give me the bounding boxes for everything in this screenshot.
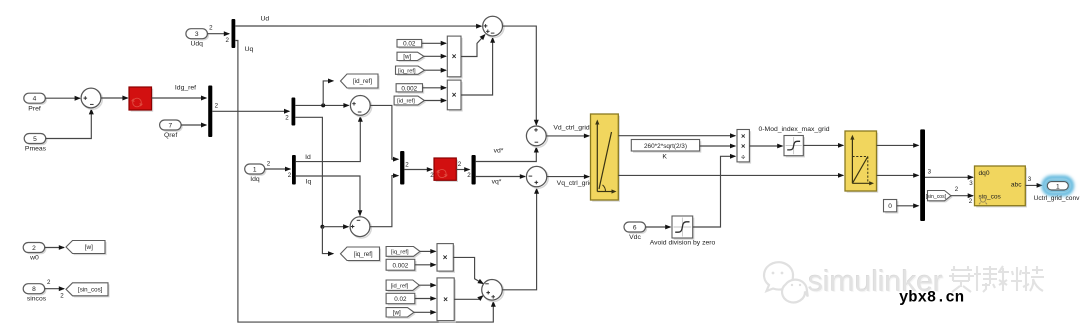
- svg-text:0: 0: [888, 203, 892, 210]
- svg-text:sincos: sincos: [27, 296, 47, 303]
- wire branch to goto id_ref: [323, 81, 333, 106]
- from tag [iq_ref] top: [397, 68, 426, 76]
- svg-text:1: 1: [1056, 184, 1060, 191]
- wire w0 to goto: [45, 247, 64, 249]
- inport 4 Pref: [25, 95, 47, 105]
- svg-text:Qref: Qref: [164, 132, 177, 139]
- wire w to product1: [424, 55, 446, 57]
- sum Ud feedforward: [484, 18, 504, 38]
- watermark chinese glyphs: [949, 266, 1044, 292]
- saturation avoid division by zero: [674, 218, 695, 240]
- svg-text:×: ×: [443, 253, 448, 262]
- from tag [id_ref] bottom: [388, 282, 421, 292]
- wire product4 to sum Uq: [454, 296, 483, 300]
- wire branch to goto iq_ref: [322, 227, 333, 254]
- sum Vq: [528, 168, 548, 188]
- inport 8 sincos: [25, 285, 47, 295]
- goto tag [sin_cos]: [68, 284, 110, 297]
- svg-text:×: ×: [452, 52, 457, 61]
- svg-text:[iq_ref]: [iq_ref]: [354, 251, 373, 258]
- svg-text:2: 2: [60, 293, 64, 300]
- wire mux to dq0 block: [925, 176, 973, 178]
- wire saturation to product5: [693, 156, 736, 227]
- wire product1 to sum Ud: [461, 35, 485, 57]
- wire to product4 b: [415, 298, 436, 300]
- dq to polar block (yellow): [592, 116, 620, 202]
- wire 0.002 to product2: [423, 87, 446, 89]
- wire K to product5: [700, 145, 736, 147]
- wire Pref to sum: [45, 97, 80, 99]
- wire vq*: [476, 176, 525, 178]
- goto tag [iq_ref]: [342, 249, 381, 263]
- from tag [iq_ref] bottom: [388, 248, 422, 258]
- svg-text:[sin_cos]: [sin_cos]: [926, 194, 947, 200]
- svg-text:2: 2: [209, 24, 213, 31]
- wire to product3: [420, 250, 436, 252]
- wire mux to demux ref: [212, 110, 289, 112]
- wire Idq to demux: [265, 168, 291, 170]
- wire sat dyn out1 to mux: [877, 144, 919, 146]
- svg-text:[id_ref]: [id_ref]: [353, 78, 372, 85]
- wire Pmeas to sum: [46, 109, 92, 138]
- wire to saturation dynamic: [803, 144, 843, 146]
- wire vd*: [476, 147, 537, 161]
- wire product3 to sum Uq: [453, 257, 483, 283]
- svg-text:Pref: Pref: [28, 105, 41, 112]
- svg-text:2: 2: [215, 103, 219, 110]
- constant 0.02 bottom: [388, 295, 417, 305]
- svg-text:[iq_ref]: [iq_ref]: [391, 250, 409, 256]
- wire abc out to outport: [1025, 184, 1042, 186]
- svg-text:3: 3: [195, 31, 199, 38]
- wire iq_ref down: [295, 117, 322, 226]
- inport 6 Vdc: [626, 224, 648, 234]
- outport 1 Uctrl_grid_conv (highlighted): [1044, 178, 1073, 195]
- junction iq_ref: [320, 225, 324, 229]
- svg-text:[id_ref]: [id_ref]: [397, 99, 415, 105]
- wire id_ref to product2: [424, 100, 446, 102]
- wire 0.02 to product1: [422, 42, 446, 44]
- svg-text:[iq_ref]: [iq_ref]: [398, 68, 416, 74]
- svg-text:6: 6: [633, 224, 637, 231]
- wire to product3 b: [415, 264, 436, 266]
- svg-text:Iq: Iq: [306, 178, 312, 185]
- constant 0: [885, 201, 898, 213]
- wire 0 to mux: [897, 205, 919, 207]
- constant 0.002 top: [398, 85, 424, 93]
- demux Idq: [292, 155, 296, 185]
- goto tag [id_ref]: [342, 76, 380, 90]
- wire iq_ref to product1: [425, 69, 446, 71]
- svg-text:×: ×: [452, 91, 457, 100]
- svg-text:[w]: [w]: [393, 310, 401, 317]
- svg-text:ybx8.cn: ybx8.cn: [899, 289, 964, 307]
- svg-text:2: 2: [405, 162, 409, 169]
- svg-text:Vd_ctrl_grid: Vd_ctrl_grid: [553, 124, 589, 131]
- svg-text:×: ×: [443, 295, 448, 304]
- saturation 0-Mod_index_max_grid: [786, 137, 805, 157]
- svg-text:4: 4: [33, 96, 37, 103]
- product5 divide x x /: [739, 131, 751, 163]
- mux ref currents: [208, 86, 212, 138]
- svg-text:0.002: 0.002: [393, 263, 409, 270]
- svg-text:Udq: Udq: [190, 41, 203, 48]
- svg-text:2: 2: [285, 115, 289, 122]
- sum Uq feedforward: [483, 281, 504, 302]
- constant 0.002 bottom: [388, 261, 417, 272]
- from tag [sin_cos]: [929, 192, 953, 202]
- wire Vd_ctrl_grid: [546, 135, 589, 137]
- from tag [w] top: [399, 54, 426, 62]
- svg-text:Idq: Idq: [250, 176, 260, 183]
- wire product2 to sum Ud: [461, 38, 493, 95]
- mux current errors: [400, 151, 404, 185]
- svg-text:Ud: Ud: [260, 16, 269, 23]
- wire Udq to demux: [208, 33, 230, 35]
- wire sum1 to mux err: [370, 105, 398, 159]
- svg-text:0.002: 0.002: [401, 85, 417, 92]
- sum Vd: [528, 127, 548, 147]
- product3 iq_ref*0.002: [439, 245, 455, 272]
- svg-text:7: 7: [168, 122, 172, 129]
- dq0 to abc transform block (yellow): [976, 168, 1027, 208]
- svg-text:2: 2: [225, 37, 229, 44]
- svg-text:abc: abc: [1011, 182, 1022, 189]
- svg-text:0.02: 0.02: [394, 296, 407, 303]
- svg-text:[w]: [w]: [85, 244, 93, 251]
- svg-text:Vdc: Vdc: [629, 234, 641, 241]
- svg-text:2: 2: [47, 279, 51, 286]
- inport 7 Qref: [161, 122, 183, 132]
- inport 2 w0: [25, 244, 47, 254]
- svg-text:1: 1: [253, 166, 257, 173]
- product4 id_ref*0.02*w: [439, 280, 456, 323]
- product1 w*L*iq_ref: [449, 38, 463, 79]
- svg-text:Uq: Uq: [245, 46, 254, 53]
- sum1 id error: [352, 97, 372, 117]
- wire to product4 a: [419, 284, 435, 286]
- wire id_ref to sum1: [295, 104, 348, 106]
- sum2 iq error: [352, 218, 372, 238]
- svg-text:0-Mod_index_max_grid: 0-Mod_index_max_grid: [758, 126, 829, 133]
- svg-text:8: 8: [32, 286, 36, 293]
- svg-text:0.02: 0.02: [403, 41, 416, 48]
- wire Uq: [235, 41, 493, 323]
- svg-text:K: K: [662, 154, 667, 161]
- svg-text:2: 2: [458, 161, 462, 168]
- from tag [id_ref] top: [396, 98, 426, 107]
- svg-text:vq*: vq*: [492, 179, 502, 186]
- wire sum Ud to sum Vd: [503, 26, 537, 125]
- junction id_ref: [321, 103, 325, 107]
- wire Vq_ctrl_grid: [547, 176, 589, 178]
- svg-text:Avoid division by zero: Avoid division by zero: [650, 240, 716, 247]
- PI controller block (red) power loop: [131, 89, 154, 112]
- svg-text:Idg_ref: Idg_ref: [175, 85, 196, 92]
- mux dq0: [920, 129, 925, 221]
- svg-text:Id: Id: [305, 154, 311, 161]
- svg-text:2: 2: [288, 172, 292, 179]
- product2 id_ref*0.002: [449, 82, 463, 112]
- wire product5 to saturation mod index: [749, 145, 782, 147]
- inport 3 Udq: [188, 30, 210, 40]
- from tag [w] bottom: [388, 309, 416, 318]
- svg-text:[sin_cos]: [sin_cos]: [78, 287, 103, 294]
- svg-text:×: ×: [741, 142, 746, 151]
- inport 5 Pmeas: [26, 135, 48, 145]
- wire sincos to goto: [45, 288, 64, 290]
- wire to product4 c: [414, 311, 436, 313]
- wire Vdc to saturation: [646, 226, 671, 228]
- svg-text:Pmeas: Pmeas: [25, 146, 47, 153]
- wire sum2 to mux err: [370, 176, 398, 227]
- svg-text:vd*: vd*: [494, 148, 504, 155]
- wire Id: [296, 117, 361, 162]
- svg-text:3: 3: [1028, 176, 1032, 183]
- svg-text:2: 2: [32, 245, 36, 252]
- goto tag [w]: [68, 242, 107, 255]
- wire sum Uq to sum Vq: [502, 189, 536, 290]
- wire iq_ref to sum2: [322, 226, 348, 228]
- PI controller block (red) current loop: [436, 160, 458, 182]
- svg-text:260*2*sqrt(2/3): 260*2*sqrt(2/3): [644, 143, 687, 150]
- svg-text:[w]: [w]: [403, 54, 411, 61]
- watermark logo bubbles: [764, 262, 808, 302]
- svg-text:3: 3: [928, 169, 932, 176]
- svg-text:Uctrl_grid_conv: Uctrl_grid_conv: [1034, 195, 1080, 202]
- wire Idg_ref: [152, 97, 207, 99]
- demux ref: [292, 98, 296, 126]
- svg-text:2: 2: [467, 172, 471, 179]
- wire sat dyn out2 to mux: [877, 174, 919, 176]
- constant 0.02: [399, 41, 424, 49]
- wire PI to demux v: [456, 169, 469, 171]
- demux vdq: [472, 155, 476, 185]
- wire mux err to PI current: [404, 169, 432, 171]
- inport 1 Idq: [246, 166, 266, 176]
- svg-text:×: ×: [741, 131, 746, 140]
- svg-text:3: 3: [969, 180, 973, 187]
- sum P (Pref - Pmeas): [83, 90, 103, 110]
- svg-text:w0: w0: [29, 255, 39, 262]
- wire sin_cos to dq0 block: [951, 195, 973, 197]
- wire angle to saturation dynamic: [618, 174, 843, 176]
- svg-text:2: 2: [267, 161, 271, 168]
- wire Ud: [235, 25, 481, 27]
- svg-text:[id_ref]: [id_ref]: [391, 283, 409, 289]
- svg-text:2: 2: [969, 198, 973, 205]
- wire sum to PI block: [101, 97, 128, 99]
- constant K 260*2*sqrt(2/3): [633, 141, 701, 153]
- demux Udq: [232, 19, 236, 48]
- wire magnitude to product5: [618, 135, 735, 137]
- saturation dynamic block (yellow): [847, 133, 879, 193]
- wire Iq: [296, 176, 360, 215]
- svg-text:Vq_ctrl_grid: Vq_ctrl_grid: [557, 180, 593, 187]
- wire Qref to mux: [181, 124, 206, 126]
- svg-text:5: 5: [33, 136, 37, 143]
- svg-text:÷: ÷: [741, 152, 745, 161]
- svg-text:dq0: dq0: [979, 170, 990, 177]
- svg-text:2: 2: [955, 186, 959, 193]
